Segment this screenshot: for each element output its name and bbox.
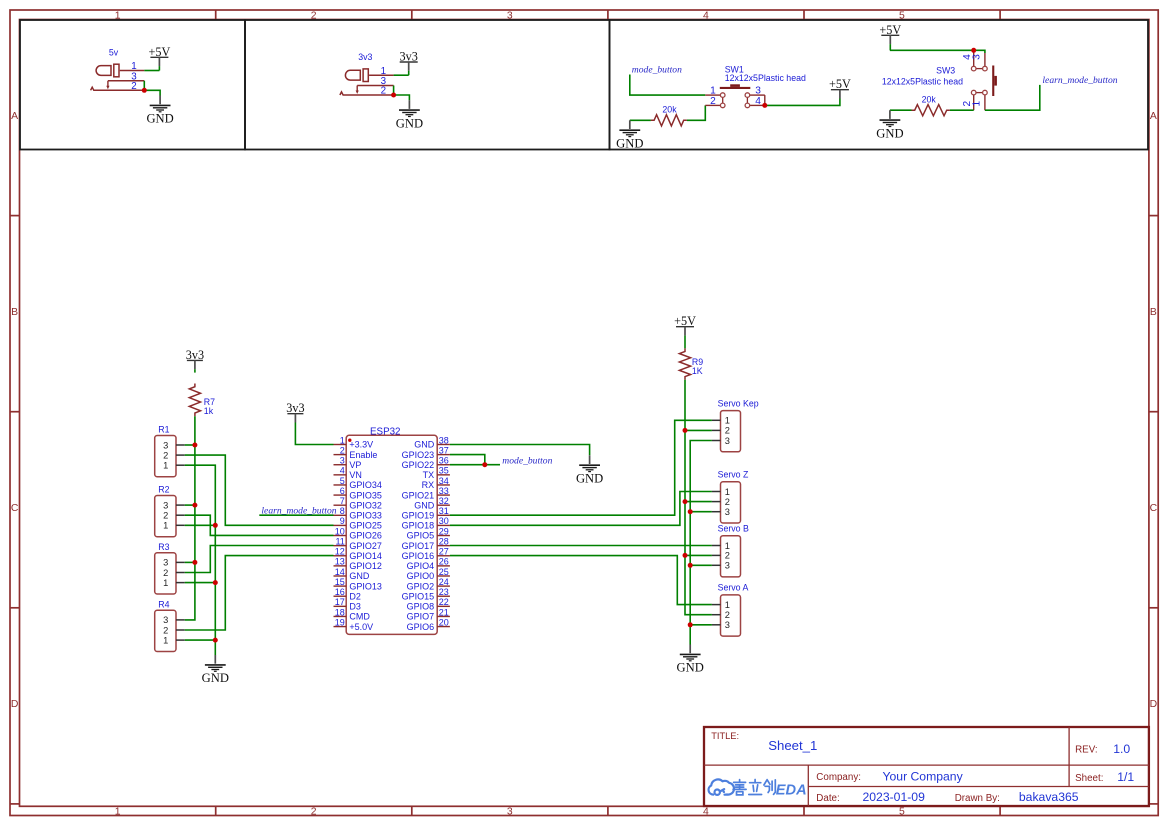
svg-text:2: 2 <box>725 426 730 436</box>
svg-text:1: 1 <box>115 806 121 817</box>
svg-text:16: 16 <box>335 587 345 597</box>
svg-text:Servo Kep: Servo Kep <box>718 398 759 408</box>
svg-text:EDA: EDA <box>776 782 807 798</box>
svg-text:17: 17 <box>335 597 345 607</box>
svg-text:GPIO7: GPIO7 <box>407 612 435 622</box>
svg-text:33: 33 <box>439 486 449 496</box>
svg-text:28: 28 <box>439 536 449 546</box>
svg-text:3: 3 <box>163 558 168 568</box>
svg-text:D: D <box>1150 699 1158 710</box>
svg-text:GPIO6: GPIO6 <box>407 622 435 632</box>
svg-text:ESP32: ESP32 <box>370 427 401 438</box>
svg-text:RX: RX <box>422 480 435 490</box>
svg-text:GPIO32: GPIO32 <box>349 500 382 510</box>
svg-text:TITLE:: TITLE: <box>711 731 739 741</box>
svg-text:GPIO18: GPIO18 <box>402 521 435 531</box>
svg-text:GPIO4: GPIO4 <box>407 561 435 571</box>
svg-text:GND: GND <box>576 472 603 486</box>
svg-text:20k: 20k <box>662 105 677 115</box>
svg-text:20k: 20k <box>922 94 937 104</box>
svg-text:Servo A: Servo A <box>718 583 749 593</box>
svg-text:GPIO17: GPIO17 <box>402 541 435 551</box>
svg-text:2: 2 <box>381 86 386 97</box>
svg-text:27: 27 <box>439 547 449 557</box>
svg-text:Servo B: Servo B <box>718 523 749 533</box>
svg-text:2: 2 <box>725 497 730 507</box>
svg-text:18: 18 <box>335 607 345 617</box>
svg-text:10: 10 <box>335 526 345 536</box>
svg-text:1: 1 <box>725 600 730 610</box>
svg-text:mode_button: mode_button <box>632 65 682 76</box>
svg-text:GPIO12: GPIO12 <box>349 561 382 571</box>
svg-text:7: 7 <box>340 496 345 506</box>
svg-text:4: 4 <box>755 96 761 107</box>
svg-text:12x12x5Plastic head: 12x12x5Plastic head <box>882 77 963 87</box>
svg-text:Your Company: Your Company <box>883 769 964 783</box>
svg-text:2: 2 <box>311 806 317 817</box>
svg-text:Drawn By:: Drawn By: <box>955 793 1000 804</box>
svg-text:3v3: 3v3 <box>358 52 372 62</box>
svg-text:GND: GND <box>414 440 435 450</box>
svg-text:12x12x5Plastic head: 12x12x5Plastic head <box>725 73 806 83</box>
svg-text:1: 1 <box>163 578 168 588</box>
svg-text:19: 19 <box>335 617 345 627</box>
svg-text:3: 3 <box>725 620 730 630</box>
svg-text:GPIO13: GPIO13 <box>349 581 382 591</box>
svg-text:Company:: Company: <box>816 772 861 783</box>
svg-text:VP: VP <box>349 460 361 470</box>
svg-text:2: 2 <box>340 445 345 455</box>
svg-text:GPIO23: GPIO23 <box>402 450 435 460</box>
svg-text:20: 20 <box>439 617 449 627</box>
svg-text:9: 9 <box>340 516 345 526</box>
svg-text:GPIO14: GPIO14 <box>349 551 382 561</box>
svg-text:GND: GND <box>146 112 173 126</box>
svg-text:GPIO22: GPIO22 <box>402 460 435 470</box>
svg-text:1: 1 <box>725 416 730 426</box>
svg-text:GPIO19: GPIO19 <box>402 511 435 521</box>
svg-text:1: 1 <box>163 521 168 531</box>
svg-text:Enable: Enable <box>349 450 377 460</box>
svg-text:mode_button: mode_button <box>502 456 552 467</box>
svg-text:R3: R3 <box>158 542 169 552</box>
svg-text:32: 32 <box>439 496 449 506</box>
svg-text:2: 2 <box>163 568 168 578</box>
svg-text:VN: VN <box>349 470 362 480</box>
svg-text:26: 26 <box>439 557 449 567</box>
svg-text:GND: GND <box>876 126 903 140</box>
svg-text:2: 2 <box>725 610 730 620</box>
svg-text:3: 3 <box>163 440 168 450</box>
svg-text:SW3: SW3 <box>936 66 955 76</box>
svg-text:29: 29 <box>439 526 449 536</box>
svg-text:D3: D3 <box>349 602 361 612</box>
svg-text:A: A <box>1150 111 1157 122</box>
svg-text:30: 30 <box>439 516 449 526</box>
svg-text:1K: 1K <box>692 366 703 376</box>
svg-text:31: 31 <box>439 506 449 516</box>
svg-text:GND: GND <box>396 116 423 130</box>
svg-text:Sheet_1: Sheet_1 <box>768 738 817 753</box>
svg-text:D2: D2 <box>349 591 361 601</box>
svg-text:C: C <box>11 503 19 514</box>
svg-text:5: 5 <box>899 806 905 817</box>
svg-text:Servo Z: Servo Z <box>718 470 749 480</box>
svg-text:3: 3 <box>163 500 168 510</box>
svg-text:5v: 5v <box>109 48 119 58</box>
svg-text:4: 4 <box>340 466 345 476</box>
svg-text:B: B <box>11 307 18 318</box>
svg-text:3: 3 <box>340 456 345 466</box>
svg-text:1k: 1k <box>204 406 214 416</box>
svg-text:2: 2 <box>163 450 168 460</box>
svg-text:1/1: 1/1 <box>1117 770 1134 784</box>
svg-text:GPIO8: GPIO8 <box>407 602 435 612</box>
svg-text:B: B <box>1150 307 1157 318</box>
svg-text:38: 38 <box>439 435 449 445</box>
svg-text:GPIO16: GPIO16 <box>402 551 435 561</box>
svg-text:GND: GND <box>349 571 370 581</box>
svg-text:GPIO0: GPIO0 <box>407 571 435 581</box>
svg-text:TX: TX <box>423 470 435 480</box>
svg-text:1: 1 <box>340 435 345 445</box>
svg-text:GND: GND <box>616 137 643 151</box>
svg-text:22: 22 <box>439 597 449 607</box>
svg-text:11: 11 <box>335 536 344 546</box>
svg-text:21: 21 <box>439 607 449 617</box>
svg-text:GPIO21: GPIO21 <box>402 490 435 500</box>
svg-text:2: 2 <box>163 511 168 521</box>
svg-text:4: 4 <box>703 806 709 817</box>
svg-text:C: C <box>1150 503 1158 514</box>
svg-text:A: A <box>11 111 18 122</box>
svg-text:12: 12 <box>335 547 345 557</box>
svg-text:2: 2 <box>131 81 136 92</box>
svg-text:1: 1 <box>163 635 168 645</box>
svg-text:GND: GND <box>202 671 229 685</box>
svg-text:Date:: Date: <box>816 793 839 804</box>
svg-text:15: 15 <box>335 577 345 587</box>
svg-text:8: 8 <box>340 506 345 516</box>
svg-text:1.0: 1.0 <box>1113 742 1130 756</box>
svg-text:GPIO33: GPIO33 <box>349 511 382 521</box>
svg-text:3: 3 <box>725 436 730 446</box>
svg-text:D: D <box>11 699 19 710</box>
svg-text:R4: R4 <box>158 599 169 609</box>
svg-text:R2: R2 <box>158 485 169 495</box>
svg-text:learn_mode_button: learn_mode_button <box>1042 75 1117 86</box>
svg-text:24: 24 <box>439 577 449 587</box>
svg-text:13: 13 <box>335 557 345 567</box>
svg-text:1: 1 <box>725 541 730 551</box>
svg-text:GPIO5: GPIO5 <box>407 531 435 541</box>
svg-text:GPIO2: GPIO2 <box>407 581 435 591</box>
svg-text:learn_mode_button: learn_mode_button <box>261 505 336 516</box>
svg-text:R1: R1 <box>158 425 169 435</box>
svg-text:GND: GND <box>677 661 704 675</box>
svg-text:2: 2 <box>710 96 716 107</box>
svg-text:GPIO34: GPIO34 <box>349 480 382 490</box>
svg-text:Sheet:: Sheet: <box>1075 773 1103 784</box>
svg-text:25: 25 <box>439 567 449 577</box>
svg-text:REV:: REV: <box>1075 745 1098 756</box>
svg-text:6: 6 <box>340 486 345 496</box>
svg-text:1: 1 <box>972 101 983 107</box>
svg-text:5: 5 <box>340 476 345 486</box>
svg-text:3: 3 <box>725 507 730 517</box>
svg-text:37: 37 <box>439 445 449 455</box>
svg-text:GPIO35: GPIO35 <box>349 490 382 500</box>
svg-text:2: 2 <box>163 625 168 635</box>
svg-text:23: 23 <box>439 587 449 597</box>
svg-text:35: 35 <box>439 466 449 476</box>
svg-text:36: 36 <box>439 456 449 466</box>
svg-text:2023-01-09: 2023-01-09 <box>863 790 926 804</box>
svg-text:GPIO26: GPIO26 <box>349 531 382 541</box>
svg-text:14: 14 <box>335 567 345 577</box>
svg-text:GPIO15: GPIO15 <box>402 591 435 601</box>
svg-text:3: 3 <box>972 54 983 60</box>
svg-text:1: 1 <box>725 487 730 497</box>
svg-text:2: 2 <box>725 551 730 561</box>
svg-text:3: 3 <box>725 561 730 571</box>
svg-text:GPIO25: GPIO25 <box>349 521 382 531</box>
svg-text:GPIO27: GPIO27 <box>349 541 382 551</box>
svg-text:3: 3 <box>507 806 513 817</box>
svg-text:1: 1 <box>163 461 168 471</box>
svg-text:CMD: CMD <box>349 612 370 622</box>
svg-text:+3.3V: +3.3V <box>349 440 373 450</box>
svg-text:3: 3 <box>163 615 168 625</box>
svg-text:+5.0V: +5.0V <box>349 622 373 632</box>
svg-text:34: 34 <box>439 476 449 486</box>
svg-text:GND: GND <box>414 500 435 510</box>
svg-text:bakava365: bakava365 <box>1019 790 1079 804</box>
